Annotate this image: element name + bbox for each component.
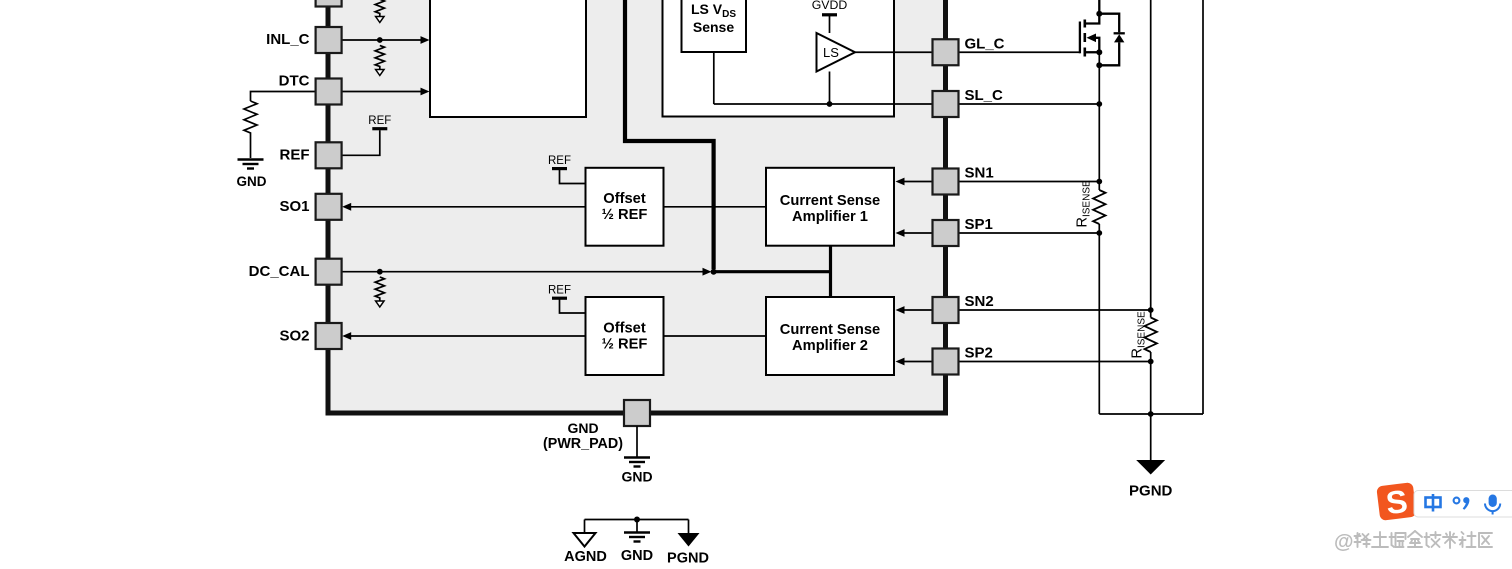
svg-text:(PWR_PAD): (PWR_PAD) [543, 436, 623, 452]
wire: SP2 pin to rail B [959, 361, 1151, 363]
svg-text:GVDD: GVDD [812, 0, 848, 12]
junction on INL_C wire [377, 37, 383, 43]
svg-text:GND: GND [621, 469, 652, 485]
wire: rail B lower (R2 to bottom wire) [1150, 352, 1152, 414]
svg-text:Sense: Sense [693, 19, 734, 35]
junction: source node [1096, 49, 1102, 55]
svg-text:GND: GND [567, 420, 598, 436]
wire: stem to PGND [1150, 414, 1152, 460]
svg-text:GND: GND [621, 548, 653, 564]
legend GND leg [636, 520, 638, 532]
transistor Q1 body arrow [1087, 34, 1100, 53]
svg-text:GL_C: GL_C [965, 36, 1005, 53]
pin GL_C [933, 36, 1005, 66]
watermark: caption glyph jin [1408, 531, 1422, 547]
svg-text:GND: GND [237, 174, 267, 189]
pin DTC [279, 72, 342, 104]
power tap REF (pin side) [368, 115, 391, 129]
pin INL_C [266, 27, 341, 53]
wire: SP1 pin to sense rail [959, 232, 1100, 234]
wire: CSA1-CSA2 bridge vertical [829, 246, 832, 297]
svg-text:SN2: SN2 [965, 293, 994, 310]
wire: SP2 into CSA2 [896, 358, 933, 366]
power tap GVDD [812, 0, 848, 33]
wire: SL_C pin to source rail [959, 103, 1100, 105]
junction SP1 / rail A [1096, 230, 1102, 236]
block: Offset 1/2 REF (2) [586, 297, 664, 375]
transistor Q1 channel segments [1084, 20, 1087, 57]
block: Offset 1/2 REF (1) [586, 168, 664, 246]
wire: rail C (cut at top, to bottom wire) [1202, 0, 1204, 414]
wire: offset2 to CSA2 [664, 335, 767, 337]
watermark: caption glyph shu [1443, 532, 1457, 548]
wire: rail B upper (cut at top, to R2) [1150, 0, 1152, 318]
legend junction [634, 517, 640, 523]
ground: PWR_PAD GND [621, 458, 652, 485]
wire: rail A upper (source to R1) [1098, 52, 1100, 190]
resistor R2 RISENSE [1130, 311, 1157, 358]
watermark: toolbar mic icon [1485, 495, 1500, 515]
wire: offset1 to CSA1 [664, 206, 767, 208]
watermark: caption glyph she [1460, 532, 1476, 547]
wire: DC_CAL pin to node [342, 268, 712, 276]
watermark: caption glyph xi [1355, 533, 1371, 547]
watermark: caption @ [1334, 531, 1354, 553]
IC body (device outline, cut at top) [328, 0, 946, 413]
wire: offset1 to SO1 pin [342, 203, 585, 211]
pin DC_CAL [249, 259, 342, 285]
legend AGND leg [584, 520, 586, 534]
svg-text:DTC: DTC [279, 72, 310, 89]
ground: DTC resistor GND [237, 160, 267, 190]
resistor: pulldown on INL_C [375, 46, 384, 76]
block: LS VDS Sense [682, 0, 747, 52]
wire: PWR_PAD to GND [636, 426, 638, 457]
watermark: input toolbar [1414, 491, 1512, 518]
svg-text:LS: LS [823, 45, 839, 60]
diode D1 cathode bar [1114, 32, 1125, 34]
junction: diode anode to rail A [1096, 62, 1102, 68]
junction on DC_CAL wire [377, 269, 383, 275]
pin SP1 [933, 216, 993, 246]
ground PGND (legend filled triangle) [667, 533, 709, 567]
resistor: pulldown above INL_C (cut at top) [375, 0, 384, 23]
svg-text:SP1: SP1 [965, 216, 993, 233]
pin SO2 [279, 323, 341, 349]
svg-text:PGND: PGND [1129, 483, 1173, 500]
svg-text:@: @ [1334, 531, 1354, 553]
ground GND (legend) [621, 533, 653, 565]
wire: SN2 pin to rail B [959, 309, 1151, 311]
wire: SN1 into CSA1 [896, 178, 933, 186]
junction SP2 / rail B [1148, 359, 1154, 365]
watermark: caption glyph tu [1372, 532, 1388, 547]
transistor Q1 (low-side NMOS) gate bar [1079, 22, 1081, 54]
block: Current Sense Amplifier 2 [766, 297, 894, 375]
watermark: caption glyph ji [1425, 532, 1441, 547]
pin SN1 [933, 165, 994, 195]
svg-text:SN1: SN1 [965, 165, 994, 182]
diode D1 (body diode) top lead [1099, 14, 1119, 33]
junction on SL row below LS buffer [827, 101, 833, 107]
watermark: caption glyph jue [1390, 533, 1406, 547]
block: LS sense outer box (cut at top) [663, 0, 895, 117]
block: Current Sense Amplifier 1 [766, 168, 894, 246]
svg-text:REF: REF [280, 147, 310, 164]
wire: LS buffer output to GL_C pin [855, 51, 933, 53]
resistor R1 RISENSE [1075, 180, 1106, 227]
svg-text:Offset: Offset [603, 321, 646, 337]
pin SN2 [933, 293, 994, 323]
legend wire [585, 519, 689, 521]
power tap REF (offset 1) [548, 155, 586, 184]
pin SO1 [279, 194, 341, 220]
svg-text:RISENSE: RISENSE [1130, 311, 1148, 358]
pin INH_C (cut at top) [316, 0, 342, 7]
svg-text:REF: REF [548, 285, 571, 297]
pin REF [280, 142, 342, 168]
wire: thick bus from top to DC_CAL node [625, 0, 714, 269]
pin GND PWR_PAD [543, 400, 650, 452]
wire: LS buffer lower stem to SL row [829, 72, 831, 105]
svg-text:PGND: PGND [667, 551, 709, 567]
svg-text:Current Sense: Current Sense [780, 322, 880, 338]
wire: SP1 into CSA1 [896, 229, 933, 237]
junction SN2 / rail B [1148, 307, 1154, 313]
svg-text:SP2: SP2 [965, 345, 993, 362]
diode D1 bottom lead [1099, 42, 1119, 65]
pin SL_C [933, 87, 1004, 117]
wire: offset2 to SO2 pin [342, 332, 585, 340]
ground PGND (filled triangle) [1129, 460, 1173, 500]
transistor Q1 source lead [1085, 51, 1100, 53]
wire: DTC to external resistor [251, 92, 316, 102]
junction: DC_CAL node [711, 269, 717, 275]
junction SN1 / rail A [1096, 179, 1102, 185]
svg-text:INL_C: INL_C [266, 31, 310, 48]
svg-text:Amplifier 2: Amplifier 2 [792, 338, 868, 354]
watermark: Sogou input logo tile [1376, 482, 1417, 522]
wire: bottom return wire [1099, 413, 1203, 415]
wire: REF pin to REF tap [342, 130, 380, 155]
svg-text:DC_CAL: DC_CAL [249, 263, 310, 280]
svg-text:SO2: SO2 [279, 327, 309, 344]
resistor: pulldown on DC_CAL [375, 277, 384, 307]
svg-text:AGND: AGND [564, 549, 607, 565]
svg-text:½ REF: ½ REF [602, 207, 648, 223]
power tap REF (offset 2) [548, 285, 586, 314]
svg-text:Current Sense: Current Sense [780, 193, 880, 209]
watermark: caption glyph qu [1479, 533, 1492, 547]
junction: drain node [1096, 11, 1102, 17]
wire: LS VDS Sense stem to SL node [713, 52, 715, 104]
svg-text:Amplifier 1: Amplifier 1 [792, 209, 868, 225]
wire: thick bus DC_CAL node to CSA bridge [714, 270, 831, 273]
pin SP2 [933, 345, 993, 375]
watermark: toolbar punctuation [1454, 497, 1470, 510]
svg-text:½ REF: ½ REF [602, 337, 648, 353]
svg-text:Offset: Offset [603, 191, 646, 207]
op-amp buffer LS [817, 33, 856, 72]
resistor: DTC external [244, 101, 257, 158]
legend PGND leg [688, 520, 690, 534]
wire: DTC to gate driver [342, 88, 430, 96]
watermark: toolbar zhong glyph [1426, 494, 1441, 512]
junction SL row / source rail [1096, 101, 1102, 107]
svg-text:SO1: SO1 [279, 198, 309, 215]
svg-text:S: S [1384, 483, 1410, 521]
svg-text:RISENSE: RISENSE [1075, 180, 1093, 227]
wire: SN1 pin to sense rail [959, 181, 1100, 183]
wire: INL_C to gate driver [342, 36, 430, 44]
svg-text:REF: REF [548, 155, 571, 167]
diode D1 triangle [1114, 34, 1124, 42]
wire: GL_C pin to MOSFET gate [959, 51, 1080, 53]
svg-text:REF: REF [368, 115, 391, 127]
wire: rail A lower (R1 to bottom wire) [1098, 224, 1100, 414]
wire: SN2 into CSA2 [896, 306, 933, 314]
transistor Q1 drain lead [1085, 0, 1100, 24]
wire: SL row to SL_C pin [714, 103, 933, 105]
block: gate driver box (cut at top) [430, 0, 586, 117]
junction: PGND node [1148, 411, 1154, 417]
svg-text:SL_C: SL_C [965, 87, 1004, 104]
ground AGND (open triangle) [564, 533, 607, 565]
